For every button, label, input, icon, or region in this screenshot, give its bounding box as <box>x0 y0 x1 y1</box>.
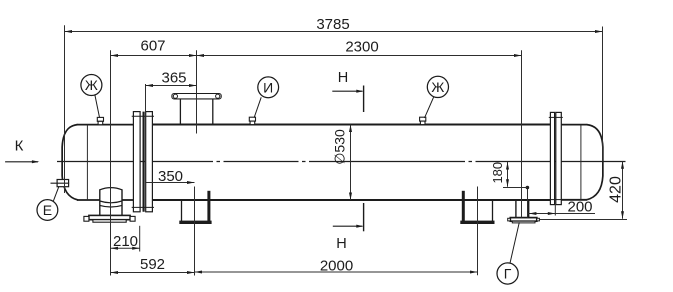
nozzle G flange <box>510 218 537 222</box>
nozzle A flange left bolt <box>173 94 177 98</box>
bottom channel nozzle neck left <box>99 189 101 215</box>
dimension 350 <box>146 168 195 185</box>
left elliptical head <box>62 125 78 200</box>
centerline of vessel <box>57 161 626 163</box>
bottom channel nozzle left bolt <box>84 216 89 221</box>
nozzle A neck right <box>212 99 214 125</box>
nozzle Zh1 small top nozzle <box>97 117 103 124</box>
left head tangent line <box>86 125 88 200</box>
view arrow K <box>5 138 39 164</box>
svg-text:2300: 2300 <box>345 39 378 56</box>
svg-text:∅530: ∅530 <box>331 129 347 165</box>
bottom channel nozzle flange <box>89 215 130 219</box>
bottom channel nozzle neck right <box>121 189 123 215</box>
reference line nozzle G axis <box>521 50 523 217</box>
bottom channel nozzle weld arc 1 <box>100 201 122 203</box>
reference line channel bottom nozzle axis <box>110 50 112 275</box>
right head bottom wire <box>561 199 587 201</box>
svg-text:Ж: Ж <box>85 77 98 93</box>
reference line left support axis <box>194 187 196 276</box>
bottom channel nozzle flange under-ring <box>93 220 126 223</box>
dimension 200 <box>528 199 596 216</box>
svg-text:420: 420 <box>608 176 625 203</box>
svg-text:592: 592 <box>140 256 165 273</box>
svg-text:200: 200 <box>567 199 592 216</box>
channel bottom wire <box>77 199 100 201</box>
right elliptical head <box>587 125 603 200</box>
reference line 180 target <box>527 188 529 218</box>
svg-text:Н: Н <box>336 236 346 252</box>
dimension 607 <box>111 38 197 58</box>
support saddle left web <box>181 200 183 221</box>
svg-text:К: К <box>15 138 24 155</box>
svg-text:Ж: Ж <box>431 79 444 95</box>
channel top wire <box>77 124 134 126</box>
label circle Zh1 <box>81 75 102 118</box>
svg-text:2000: 2000 <box>320 258 353 275</box>
girth flange right top stud <box>549 116 563 118</box>
reference line 210 right tick <box>139 226 141 252</box>
dimension 365 <box>146 69 197 87</box>
dimension 210 <box>111 233 140 250</box>
nozzle E stub on head <box>51 180 70 187</box>
support saddle left base plate <box>179 221 211 224</box>
label circle I <box>254 77 279 118</box>
girth flange right lower reference stub <box>554 205 556 216</box>
nozzle A flange plate <box>172 94 221 99</box>
label circle Zh2 <box>425 76 449 118</box>
svg-text:Е: Е <box>43 202 52 218</box>
dimension 592 <box>111 256 195 274</box>
girth flange right bar1 <box>550 112 554 204</box>
shell bottom wire <box>152 199 550 201</box>
girth flange left bar2 <box>146 112 153 212</box>
nozzle G flange under-ring <box>512 221 535 223</box>
right head tangent line <box>580 125 582 200</box>
reference line tubesheet plane <box>145 84 147 183</box>
girth flange left bottom stud <box>132 206 154 208</box>
nozzle G right bolt <box>537 218 540 221</box>
svg-text:Н: Н <box>338 70 348 86</box>
girth flange left top stud <box>132 115 154 117</box>
dimension diameter 530 <box>331 125 352 201</box>
support saddle right web <box>492 200 494 221</box>
reference line 420 bottom <box>539 219 627 221</box>
girth flange right bottom stud <box>549 199 563 201</box>
dimension 2300 <box>197 39 522 58</box>
reference line nozzle A axis <box>196 50 198 133</box>
bottom channel nozzle saddle arc <box>100 188 122 190</box>
shell top wire <box>152 124 550 126</box>
tubesheet edge <box>143 112 145 212</box>
nozzle A neck left <box>179 99 181 125</box>
nozzle Zh2 small top nozzle <box>420 117 426 124</box>
svg-text:180: 180 <box>490 162 505 184</box>
reference line right support axis <box>477 187 479 276</box>
support saddle right base plate <box>460 221 494 224</box>
section mark H bottom <box>333 203 364 252</box>
svg-text:350: 350 <box>158 168 183 185</box>
dimension 2000 <box>195 258 478 275</box>
girth flange right bar2 <box>556 112 562 204</box>
svg-text:607: 607 <box>140 38 165 55</box>
svg-text:365: 365 <box>161 69 186 86</box>
svg-text:Г: Г <box>504 266 512 282</box>
svg-text:И: И <box>263 79 273 95</box>
extension line left head apex <box>64 25 66 193</box>
reference dot 180 <box>526 186 530 190</box>
section mark H top <box>332 70 363 112</box>
right head top wire <box>561 124 587 126</box>
dimension 3785 <box>65 16 603 33</box>
nozzle G neck right <box>528 200 530 218</box>
label circle G <box>497 222 519 284</box>
reference line 180 horizontal <box>503 187 528 189</box>
bottom channel nozzle right bolt <box>130 216 135 221</box>
extension line right head apex <box>602 27 604 162</box>
support saddle right rib <box>462 191 465 221</box>
svg-text:3785: 3785 <box>316 16 349 33</box>
nozzle G left bolt <box>508 218 511 221</box>
dimension 420 <box>608 161 625 218</box>
svg-text:210: 210 <box>113 233 138 250</box>
nozzle A flange right bolt <box>216 94 220 98</box>
nozzle G neck left <box>515 200 517 218</box>
dimension 180 <box>490 162 509 187</box>
support saddle left rib <box>207 191 210 221</box>
nozzle I small top nozzle <box>249 117 255 124</box>
bottom channel nozzle weld arc 2 <box>100 205 122 207</box>
label circle E <box>37 186 59 220</box>
girth flange left bar1 <box>133 112 140 212</box>
